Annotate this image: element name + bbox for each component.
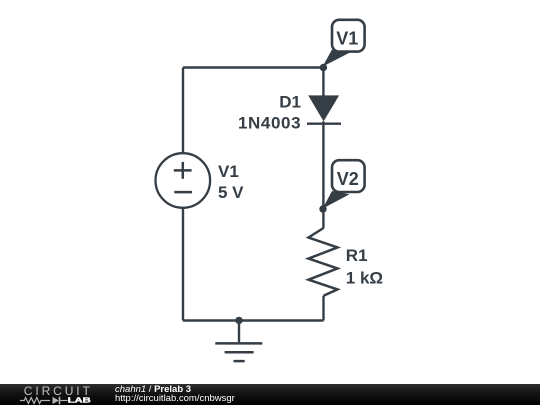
svg-text:D1: D1: [279, 92, 301, 111]
svg-text:R1: R1: [346, 246, 368, 265]
svg-text:V1: V1: [336, 29, 358, 49]
svg-text:1N4003: 1N4003: [238, 113, 301, 132]
svg-text:V2: V2: [337, 169, 359, 189]
svg-text:5 V: 5 V: [218, 183, 244, 202]
svg-text:V1: V1: [218, 162, 239, 181]
svg-text:LAB: LAB: [68, 396, 92, 405]
svg-text:1 kΩ: 1 kΩ: [346, 269, 383, 288]
